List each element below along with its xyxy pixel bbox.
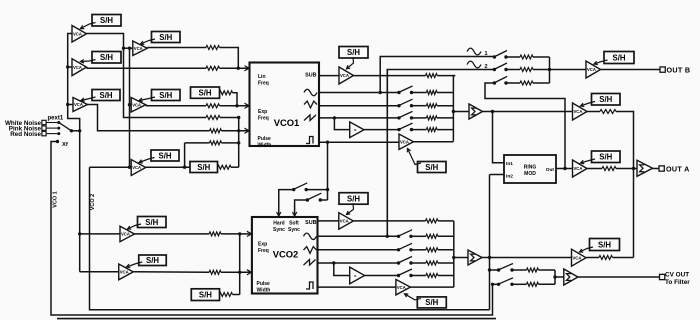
svg-text:Xf: Xf xyxy=(62,142,68,148)
svg-text:Soft: Soft xyxy=(289,221,299,227)
svg-text:S/H: S/H xyxy=(599,95,612,104)
svg-text:MOD: MOD xyxy=(524,171,536,177)
svg-text:OUT A: OUT A xyxy=(666,164,690,173)
svg-text:S/H: S/H xyxy=(598,240,611,249)
svg-text:Width: Width xyxy=(257,287,271,293)
svg-text:SUB: SUB xyxy=(305,220,316,226)
svg-text:Sync: Sync xyxy=(273,227,285,233)
svg-text:-: - xyxy=(354,125,357,134)
svg-text:CV OUT: CV OUT xyxy=(665,272,689,279)
svg-text:S/H: S/H xyxy=(159,33,172,42)
svg-text:S/H: S/H xyxy=(159,91,172,100)
svg-text:VCA: VCA xyxy=(573,255,582,260)
svg-text:pext1: pext1 xyxy=(48,116,64,122)
svg-text:S/H: S/H xyxy=(347,194,360,203)
svg-text:SUB: SUB xyxy=(305,73,316,79)
svg-text:In2: In2 xyxy=(506,174,513,180)
svg-text:VCA: VCA xyxy=(120,270,129,275)
svg-text:VCA: VCA xyxy=(397,285,406,290)
svg-text:S/H: S/H xyxy=(100,53,113,62)
svg-text:S/H: S/H xyxy=(199,290,212,299)
svg-text:2: 2 xyxy=(485,64,488,70)
svg-text:S/H: S/H xyxy=(159,151,172,160)
svg-text:S/H: S/H xyxy=(425,163,438,172)
svg-text:OUT B: OUT B xyxy=(667,65,691,74)
svg-text:VCA: VCA xyxy=(73,65,82,70)
svg-text:VCA: VCA xyxy=(340,219,349,224)
svg-text:VCA: VCA xyxy=(574,166,583,171)
svg-text:VCO 1: VCO 1 xyxy=(53,191,59,208)
svg-text:VCA: VCA xyxy=(121,232,130,237)
svg-text:S/H: S/H xyxy=(613,53,626,62)
svg-text:S/H: S/H xyxy=(347,48,360,57)
svg-text:VCA: VCA xyxy=(574,109,583,114)
svg-text:Exp: Exp xyxy=(258,109,267,115)
svg-text:To Filter: To Filter xyxy=(665,279,690,286)
svg-text:VCO2: VCO2 xyxy=(273,249,299,260)
svg-text:VCA: VCA xyxy=(134,46,143,51)
svg-text:Freq: Freq xyxy=(258,81,269,87)
svg-text:Lin: Lin xyxy=(258,74,266,80)
svg-text:RING: RING xyxy=(524,165,537,171)
svg-text:Freq: Freq xyxy=(258,248,269,254)
svg-text:Exp: Exp xyxy=(258,242,267,248)
svg-text:S/H: S/H xyxy=(100,16,113,25)
svg-text:VCA: VCA xyxy=(340,73,349,78)
svg-text:Width: Width xyxy=(258,142,272,148)
svg-text:1: 1 xyxy=(485,51,488,57)
svg-text:Sync: Sync xyxy=(288,227,300,233)
svg-text:VCA: VCA xyxy=(132,102,141,107)
svg-text:VCO 2: VCO 2 xyxy=(90,194,96,211)
svg-text:Freq: Freq xyxy=(258,116,269,122)
svg-text:VCA: VCA xyxy=(400,139,409,144)
svg-text:VCA: VCA xyxy=(73,31,82,36)
svg-text:In1: In1 xyxy=(506,161,513,167)
svg-text:Pulse: Pulse xyxy=(258,136,272,142)
svg-text:S/H: S/H xyxy=(100,91,113,100)
svg-text:S/H: S/H xyxy=(197,163,210,172)
svg-text:S/H: S/H xyxy=(146,256,159,265)
svg-text:S/H: S/H xyxy=(199,88,212,97)
svg-text:VCA: VCA xyxy=(587,67,596,72)
svg-text:Pulse: Pulse xyxy=(257,281,271,287)
svg-text:S/H: S/H xyxy=(425,298,438,307)
svg-text:Red Noise: Red Noise xyxy=(10,131,41,138)
svg-text:VCO1: VCO1 xyxy=(274,117,300,128)
svg-text:S/H: S/H xyxy=(145,218,158,227)
svg-text:Out: Out xyxy=(546,167,555,173)
svg-text:Hard: Hard xyxy=(273,221,284,227)
svg-text:VCA: VCA xyxy=(74,102,83,107)
svg-text:VCA: VCA xyxy=(132,165,141,170)
svg-text:S/H: S/H xyxy=(599,153,612,162)
svg-text:-: - xyxy=(354,271,357,280)
